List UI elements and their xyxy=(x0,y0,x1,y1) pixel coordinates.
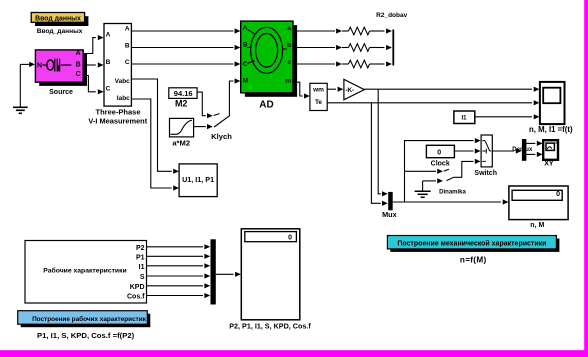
wire AD a out with arrow to resistor Ra xyxy=(297,28,349,33)
wire Vabc to U1,I1,P1 input 1 xyxy=(131,79,179,174)
svg-text:Iabc: Iabc xyxy=(117,95,130,102)
wire AD b out with arrow to resistor Rb xyxy=(297,45,349,50)
svg-text:C: C xyxy=(125,59,130,66)
clock block Clock xyxy=(426,145,454,157)
switch block Switch xyxy=(481,135,492,167)
display block P2,P1,I1,S,KPD,Cos.f xyxy=(241,229,299,320)
annotation label Построение механической характеристики (cyan) xyxy=(387,236,559,252)
wire ground G1 to Source N input xyxy=(20,62,35,67)
svg-text:b: b xyxy=(287,42,291,49)
resistor Rc zigzag xyxy=(349,60,370,68)
svg-text:a: a xyxy=(287,25,291,32)
wire S to Mux2 xyxy=(147,273,211,278)
svg-text:A: A xyxy=(125,25,130,32)
annotation label "Ввод данных" (yellow, shadowed) xyxy=(31,13,88,27)
border bottom magenta bar xyxy=(0,350,588,357)
svg-text:Source: Source xyxy=(49,89,73,96)
svg-text:Mux: Mux xyxy=(382,210,397,219)
wire P2 to Mux2 xyxy=(147,244,211,249)
svg-text:-K-: -K- xyxy=(345,87,354,94)
manual switch Dinamika lever and wire to Switch in3 xyxy=(447,159,481,181)
svg-text:Clock: Clock xyxy=(431,161,450,168)
svg-text:P1: P1 xyxy=(136,255,145,262)
display block n, M xyxy=(509,186,568,220)
wire Demux out2 to XY in2 xyxy=(526,152,542,157)
svg-text:C: C xyxy=(243,61,248,68)
manual switch Klych lever xyxy=(214,116,229,127)
wire resistor Rb to terminator bar xyxy=(370,45,392,50)
svg-text:S: S xyxy=(140,274,145,281)
wire M2 out to Klych upper contact xyxy=(197,92,219,118)
svg-text:0: 0 xyxy=(288,235,292,242)
block Three-Phase V-I Measurement xyxy=(104,24,131,107)
wire I1 to Mux2 xyxy=(147,263,211,268)
wire wm out to gain input xyxy=(327,87,343,92)
wire resistor Rc to terminator bar xyxy=(370,61,392,66)
wire gain out to scope in1 (speed n) xyxy=(364,87,539,92)
svg-text:0: 0 xyxy=(556,191,560,198)
svg-text:B: B xyxy=(125,43,130,50)
wire tap Te down to Mux in2 xyxy=(371,103,387,206)
svg-text:Рабочие характеристики: Рабочие характеристики xyxy=(43,267,126,275)
wire KPD to Mux2 xyxy=(147,283,211,288)
source block Source (magenta) xyxy=(35,50,87,86)
svg-text:KPD: KPD xyxy=(130,284,145,291)
svg-text:P2, P1, I1, S, KPD, Cos.f: P2, P1, I1, S, KPD, Cos.f xyxy=(229,321,311,330)
wire P1 to Mux2 xyxy=(147,254,211,259)
svg-text:P2: P2 xyxy=(136,245,145,252)
wire Mux out to display n,M xyxy=(393,199,509,204)
constant/goto block I1 xyxy=(454,111,475,124)
wire resistor Ra to terminator bar xyxy=(370,28,392,33)
border right magenta bar xyxy=(584,0,588,357)
svg-text:m: m xyxy=(285,77,291,84)
wire a*M2 out to Klych lower contact xyxy=(194,124,213,129)
svg-text:B: B xyxy=(106,59,111,66)
svg-text:n, M, I1 =f(t): n, M, I1 =f(t) xyxy=(529,125,573,134)
resistor Ra zigzag xyxy=(349,27,370,35)
wire AD c out with arrow to resistor Rc xyxy=(297,61,349,66)
svg-text:B: B xyxy=(243,42,248,49)
svg-text:XY: XY xyxy=(544,161,554,168)
svg-text:Dinamika: Dinamika xyxy=(439,189,466,195)
annotation label Построение рабочих характеристик (light blue) xyxy=(18,311,151,328)
constant block 94.16 (M2) xyxy=(169,88,197,99)
svg-text:Three-Phase: Three-Phase xyxy=(95,108,140,117)
svg-text:AD: AD xyxy=(259,99,273,110)
wire Switch out to Demux xyxy=(492,148,521,153)
svg-text:Cos.f: Cos.f xyxy=(127,294,145,301)
machines measurement block wm/Te xyxy=(310,83,327,110)
svg-text:n, M: n, M xyxy=(530,222,544,229)
XY graph block xyxy=(543,140,558,160)
svg-text:N: N xyxy=(37,63,42,70)
Demux block bar xyxy=(522,139,527,161)
subsystem block Рабочие характеристики xyxy=(25,241,147,304)
wire I1 block to scope in3 xyxy=(475,114,540,119)
svg-text:C: C xyxy=(76,71,81,78)
wire Three-Phase B out to AD B input xyxy=(131,45,240,50)
svg-text:A: A xyxy=(106,31,111,38)
svg-text:M2: M2 xyxy=(175,98,188,108)
svg-text:Switch: Switch xyxy=(474,170,497,177)
wire Three-Phase A out to AD A input xyxy=(131,28,240,33)
svg-text:I1: I1 xyxy=(139,264,145,271)
svg-text:Построение рабочих характерист: Построение рабочих характеристик xyxy=(32,315,147,323)
svg-text:V-I Measurement: V-I Measurement xyxy=(88,117,147,126)
resistor Rb zigzag xyxy=(349,44,370,52)
svg-text:P1, I1, S, KPD, Cos.f =f(P2): P1, I1, S, KPD, Cos.f =f(P2) xyxy=(37,331,135,340)
svg-text:c: c xyxy=(287,59,291,66)
svg-text:A: A xyxy=(243,25,248,32)
svg-text:n=f(M): n=f(M) xyxy=(460,255,487,264)
wire junction up to Switch in1 xyxy=(405,141,474,202)
svg-text:94.16: 94.16 xyxy=(174,89,193,98)
wire AD m out to Machines Measurement input xyxy=(297,82,310,98)
ground symbol G1 xyxy=(13,64,28,113)
svg-text:R2_dobav: R2_dobav xyxy=(376,12,407,19)
wire Three-Phase C out to AD C input xyxy=(131,61,240,66)
svg-text:I1: I1 xyxy=(461,115,467,121)
svg-text:Ввод данных: Ввод данных xyxy=(35,15,81,22)
wire Source B to Three-Phase B input xyxy=(84,62,104,67)
svg-text:0: 0 xyxy=(437,149,441,156)
wire tap n down to Mux in1 xyxy=(378,89,388,196)
Mux block (right, 2 inputs) xyxy=(388,192,393,210)
wire Mux2 out to display xyxy=(216,272,241,277)
terminator bar (star point) xyxy=(392,30,394,66)
wire Cos.f to Mux2 xyxy=(147,293,211,298)
wire Klych out to AD M input xyxy=(229,78,240,116)
label Three-Phase V-I Measurement xyxy=(88,108,147,126)
svg-text:wm: wm xyxy=(312,86,324,93)
saturation block a*M2 xyxy=(170,118,194,136)
svg-text:Построение механической характ: Построение механической характеристики xyxy=(397,240,546,248)
wire Clock out to Switch in2 xyxy=(454,148,480,153)
svg-text:a*M2: a*M2 xyxy=(172,138,190,147)
svg-text:Te: Te xyxy=(315,99,322,106)
gain block -K- (triangle) xyxy=(344,79,364,99)
wire Demux out1 to XY in1 xyxy=(526,141,542,146)
svg-text:Ввод_данных: Ввод_данных xyxy=(37,28,83,35)
wire Iabc to U1,I1,P1 input 2 xyxy=(131,99,179,191)
wire Source C to Three-Phase C input xyxy=(84,76,104,95)
svg-text:M: M xyxy=(243,78,248,85)
svg-text:Vabc: Vabc xyxy=(115,78,131,85)
svg-text:U1, I1, P1: U1, I1, P1 xyxy=(182,175,214,184)
wire ground G2 to Dinamika lower contact xyxy=(423,178,443,183)
svg-text:Klych: Klych xyxy=(211,132,232,141)
svg-text:C: C xyxy=(106,86,111,93)
svg-text:B: B xyxy=(76,61,81,68)
ground symbol G2 (Dinamika) xyxy=(415,181,431,197)
arrow into Switch in1 xyxy=(475,138,481,143)
wire Te out to scope in2 (torque M) xyxy=(327,100,539,105)
wire Source A to Three-Phase A input xyxy=(84,35,104,54)
Mux block Mux2 (6 inputs) xyxy=(211,239,216,304)
asynchronous machine block AD (green) xyxy=(241,21,297,97)
svg-text:A: A xyxy=(76,50,81,57)
display block U1, I1, P1 xyxy=(179,164,217,197)
scope block (n, M, I1) xyxy=(540,82,565,124)
wire to Dinamika upper contact xyxy=(405,169,449,174)
